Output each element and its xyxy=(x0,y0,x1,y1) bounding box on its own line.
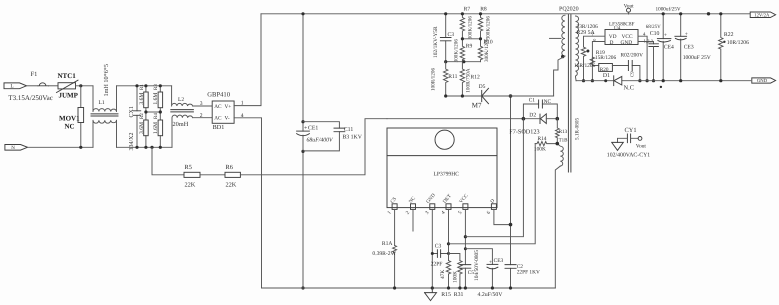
capacitor C2 xyxy=(505,264,540,275)
wire U4 VD to R29 xyxy=(584,36,606,47)
svg-text:BD1: BD1 xyxy=(213,124,225,131)
primary polarity dot xyxy=(561,55,564,58)
transformer T1 aux winding T1B xyxy=(557,144,563,166)
svg-text:100K: 100K xyxy=(534,146,546,152)
svg-text:CY1: CY1 xyxy=(625,127,637,134)
IC U1 pin 2 NC xyxy=(405,195,418,216)
bottom rail (primary ground) xyxy=(262,287,556,289)
svg-text:T3.15A/250Vac: T3.15A/250Vac xyxy=(8,94,53,102)
svg-text:F1: F1 xyxy=(31,71,38,78)
svg-text:JUMP: JUMP xyxy=(59,92,79,100)
junction dots divider mids and rails xyxy=(144,110,147,113)
common-mode choke L1 top winding xyxy=(93,86,117,112)
svg-text:1000uF 25V: 1000uF 25V xyxy=(683,55,711,61)
svg-text:3.6M: 3.6M xyxy=(139,93,145,105)
svg-text:GBP410: GBP410 xyxy=(207,92,230,99)
svg-text:LF3588C8F: LF3588C8F xyxy=(609,21,634,27)
junction dot N line xyxy=(79,146,82,149)
snubber mid tie line xyxy=(446,61,481,63)
svg-text:C11: C11 xyxy=(344,127,354,133)
svg-text:LP3799HC: LP3799HC xyxy=(434,172,460,178)
capacitor C1 (NC) xyxy=(523,97,557,118)
wire bridge pin1 to top rail xyxy=(234,14,261,106)
node Vout terminal circle (top rail) xyxy=(624,3,635,14)
svg-text:NTC1: NTC1 xyxy=(58,72,77,80)
snubber bottom line to transformer xyxy=(446,95,554,97)
svg-text:1mH 10*6*5: 1mH 10*6*5 xyxy=(103,64,110,96)
capacitor C3 (CS filter) xyxy=(431,243,449,267)
svg-text:2: 2 xyxy=(200,113,203,119)
svg-text:AC: AC xyxy=(214,104,222,110)
svg-text:R9: R9 xyxy=(466,44,473,50)
resistor R10 xyxy=(478,38,493,62)
drain vertical wire xyxy=(510,96,512,288)
snubber capacitor C3 (primary) xyxy=(433,14,454,62)
common-mode choke L1 bottom winding xyxy=(93,120,117,147)
svg-text:R4: R4 xyxy=(153,113,159,119)
svg-text:1: 1 xyxy=(386,210,393,216)
top rail xyxy=(261,13,751,15)
diode D1 (NC) xyxy=(603,73,634,91)
svg-text:+: + xyxy=(685,31,688,37)
svg-text:3: 3 xyxy=(424,210,431,216)
resistor R29 xyxy=(577,24,599,81)
svg-text:R11: R11 xyxy=(448,74,457,80)
svg-text:R29 5A: R29 5A xyxy=(577,30,596,36)
stray dot marker xyxy=(660,86,662,88)
capacitor C11 xyxy=(303,122,363,151)
capacitor CX1 xyxy=(129,86,141,151)
common-mode choke L2 top winding xyxy=(172,86,213,106)
fuse F1 xyxy=(38,83,49,86)
wire L1 to filter columns (top) xyxy=(117,85,172,87)
wire NTC1 to node, through to L1 xyxy=(76,85,94,87)
svg-text:300K/1206: 300K/1206 xyxy=(486,16,492,40)
svg-text:N: N xyxy=(11,145,15,151)
wire primary bottom to drain bus xyxy=(554,56,565,96)
resistor R2 xyxy=(139,108,148,148)
wire R5 to R6 xyxy=(200,174,225,176)
svg-text:100R/750A: 100R/750A xyxy=(465,68,471,92)
svg-text:Vout: Vout xyxy=(636,143,647,149)
svg-text:D1: D1 xyxy=(603,73,610,79)
svg-text:R12: R12 xyxy=(471,74,481,80)
svg-text:V-: V- xyxy=(225,115,230,121)
primary mid tick xyxy=(550,37,562,39)
svg-text:MOV1: MOV1 xyxy=(59,114,80,122)
resistor R4 xyxy=(153,108,162,148)
svg-text:C9: C9 xyxy=(630,71,636,77)
svg-text:6: 6 xyxy=(486,210,493,216)
wire U4 D pins down xyxy=(592,42,605,81)
svg-text:D: D xyxy=(610,40,614,46)
wire pin3 GND to ground xyxy=(431,209,433,288)
bridge rectifier BD1 GBP410 xyxy=(207,92,234,131)
wire pin2 NC stub xyxy=(412,209,414,231)
resistor R15 xyxy=(440,261,451,299)
wire L terminal to fuse xyxy=(27,85,39,87)
L2 core xyxy=(171,110,194,112)
IC U1 pin 4 DET xyxy=(440,193,453,216)
top rail junction dots (snubber) xyxy=(444,12,447,15)
svg-text:+: + xyxy=(664,32,667,38)
svg-text:T1B: T1B xyxy=(559,137,569,143)
resistor R14 xyxy=(534,136,557,152)
resistor R9 xyxy=(454,39,473,63)
IC U1 pin 1 CS xyxy=(386,196,398,216)
electrolytic capacitor CE4 xyxy=(656,6,681,80)
svg-text:100R/1206: 100R/1206 xyxy=(431,68,437,91)
svg-text:100K: 100K xyxy=(452,271,458,283)
svg-text:102/1KV-Y5R: 102/1KV-Y5R xyxy=(433,26,439,58)
resistor R6 xyxy=(225,164,240,189)
wire N terminal to L1 xyxy=(28,146,94,148)
resistor R13 xyxy=(556,119,560,144)
wire pin6 D to drain bus xyxy=(494,209,511,224)
wire VCC riser xyxy=(465,119,523,237)
wire pin4 DET down xyxy=(448,209,450,260)
rail test point dot xyxy=(707,12,710,15)
svg-text:NC: NC xyxy=(65,122,75,130)
svg-text:1.6M: 1.6M xyxy=(153,122,159,134)
svg-text:22K: 22K xyxy=(185,182,196,189)
svg-text:D5: D5 xyxy=(479,84,486,90)
svg-text:47K: 47K xyxy=(440,270,446,279)
svg-text:22K: 22K xyxy=(226,182,237,189)
svg-text:102/400VAC-CY1: 102/400VAC-CY1 xyxy=(607,152,650,158)
terminal GND xyxy=(752,78,776,84)
svg-text:1000uf/25V: 1000uf/25V xyxy=(656,6,681,12)
svg-text:U4: U4 xyxy=(614,25,621,31)
svg-text:R14: R14 xyxy=(538,136,547,142)
svg-text:300K/1206: 300K/1206 xyxy=(468,16,474,40)
svg-text:CE4: CE4 xyxy=(664,45,674,51)
svg-text:68/25V: 68/25V xyxy=(646,24,661,30)
earth ground symbol xyxy=(425,288,437,301)
output ground line xyxy=(576,80,751,82)
varistor MOV1 xyxy=(59,86,84,147)
wire bridge pin4 to bottom rail xyxy=(234,118,261,288)
svg-text:12V/2A: 12V/2A xyxy=(754,12,770,18)
svg-text:C10: C10 xyxy=(650,31,660,37)
wire R1R2-R3R4 mid tie xyxy=(146,111,160,113)
Y-capacitor CY1 xyxy=(607,127,650,158)
capacitor C9 xyxy=(621,52,644,77)
svg-text:R31: R31 xyxy=(454,292,464,298)
svg-text:+: + xyxy=(489,260,492,266)
common-mode choke L2 bottom winding xyxy=(172,115,212,147)
svg-text:R3: R3 xyxy=(153,84,159,90)
svg-text:CE3: CE3 xyxy=(494,258,504,264)
terminal N xyxy=(5,145,28,152)
svg-text:V+: V+ xyxy=(225,104,232,110)
wire U4 GND pins to C10 xyxy=(638,42,654,44)
svg-text:15R/1206: 15R/1206 xyxy=(595,55,617,61)
svg-text:PQ2020: PQ2020 xyxy=(559,6,579,12)
svg-text:4.2uF/50V: 4.2uF/50V xyxy=(478,292,504,298)
wire L1 to filter columns (bottom) xyxy=(117,146,173,148)
junction dot L line xyxy=(79,84,82,87)
svg-text:R13: R13 xyxy=(559,129,568,135)
svg-text:B3 1KV: B3 1KV xyxy=(342,135,362,141)
svg-text:R6: R6 xyxy=(226,164,233,171)
electrolytic capacitor CE3 xyxy=(465,249,503,298)
svg-text:33R/1206: 33R/1206 xyxy=(577,24,599,30)
secondary controller U4 LF3588C8F xyxy=(605,21,638,46)
resistor R19 xyxy=(590,50,616,64)
terminal L xyxy=(4,83,27,90)
wire pin5 VCC down xyxy=(464,209,466,264)
svg-text:GND: GND xyxy=(621,40,633,46)
resistor R20 xyxy=(574,63,640,81)
junction dots CX1 xyxy=(135,84,138,87)
IC U1 pin 3 GND xyxy=(424,192,437,216)
svg-text:R7: R7 xyxy=(464,6,471,12)
svg-text:300K/1206: 300K/1206 xyxy=(454,39,460,63)
transformer T1 primary winding xyxy=(562,15,565,56)
svg-text:C3: C3 xyxy=(435,243,442,249)
svg-text:22PF 1KV: 22PF 1KV xyxy=(517,269,540,275)
resistor R3 xyxy=(153,84,162,108)
svg-text:10R/1206: 10R/1206 xyxy=(727,40,749,46)
svg-text:3: 3 xyxy=(200,101,203,107)
resistor R31 xyxy=(449,254,464,299)
capacitor C5 xyxy=(460,250,480,288)
svg-text:CX1: CX1 xyxy=(129,106,135,117)
diode D2 F7-SOD123 xyxy=(509,113,557,136)
svg-text:R22: R22 xyxy=(724,32,734,38)
electrolytic capacitor CE1 xyxy=(297,14,334,288)
svg-text:F7-SOD123: F7-SOD123 xyxy=(509,128,539,135)
svg-text:3.6M: 3.6M xyxy=(139,122,145,134)
svg-text:2: 2 xyxy=(405,210,412,216)
svg-text:104/50V-0805: 104/50V-0805 xyxy=(474,250,480,281)
resistor R8 xyxy=(478,6,491,39)
resistor R22 xyxy=(719,14,749,81)
svg-text:NC: NC xyxy=(544,99,552,105)
terminal 12V/2A xyxy=(750,12,775,18)
IC U1 LP3799HC package xyxy=(387,128,497,208)
svg-text:R5: R5 xyxy=(185,164,192,171)
transformer T1 secondary winding xyxy=(576,16,579,81)
svg-text:334/X2: 334/X2 xyxy=(129,133,135,151)
svg-text:20mH: 20mH xyxy=(173,121,189,128)
resistor R7 xyxy=(460,6,473,39)
svg-text:GND: GND xyxy=(757,78,768,84)
svg-text:+: + xyxy=(304,126,307,132)
L1 core xyxy=(91,114,118,116)
svg-text:CE3: CE3 xyxy=(684,45,694,51)
junction dots CE1 xyxy=(301,12,304,15)
svg-text:22PF: 22PF xyxy=(431,261,443,267)
svg-text:C1: C1 xyxy=(529,97,536,103)
svg-text:D2: D2 xyxy=(529,113,536,119)
svg-text:R20: R20 xyxy=(600,67,609,73)
wire aux bottom to primary ground rail xyxy=(555,166,560,288)
svg-text:Vout: Vout xyxy=(624,3,635,9)
svg-text:1.6M: 1.6M xyxy=(153,93,159,105)
svg-text:R02/200V: R02/200V xyxy=(621,52,644,58)
wire startup tap down from N line xyxy=(152,147,184,175)
resistor R1 xyxy=(139,84,148,108)
diode D5 M7 xyxy=(472,84,489,110)
wire DET riser xyxy=(449,144,536,244)
snubber upper tie line xyxy=(462,38,480,40)
svg-text:R15: R15 xyxy=(441,292,451,298)
capacitor C10 xyxy=(646,24,661,81)
svg-text:300K/1206: 300K/1206 xyxy=(484,38,490,62)
svg-text:R8: R8 xyxy=(480,6,487,12)
wire fuse to NTC1 xyxy=(49,85,59,87)
svg-text:0.39R-2W: 0.39R-2W xyxy=(372,251,396,257)
svg-text:L1: L1 xyxy=(99,100,105,106)
wire pin1 CS to R1A xyxy=(394,209,396,245)
svg-text:5.1R-0805: 5.1R-0805 xyxy=(575,118,581,140)
svg-text:15R/1206: 15R/1206 xyxy=(574,63,596,69)
svg-text:L: L xyxy=(10,84,13,90)
electrolytic capacitor CE5 xyxy=(675,14,711,81)
svg-text:L2: L2 xyxy=(178,97,184,103)
thermistor NTC1 (JUMP) xyxy=(57,72,79,100)
svg-text:4: 4 xyxy=(440,210,447,216)
IC U1 pin 5 VCC xyxy=(457,192,470,215)
svg-text:5: 5 xyxy=(457,210,464,216)
svg-text:CE1: CE1 xyxy=(308,126,318,132)
resistor R11 xyxy=(431,62,458,96)
svg-text:C3: C3 xyxy=(448,32,455,38)
svg-text:R1: R1 xyxy=(139,84,145,90)
wire startup feed over IC to VCC node xyxy=(387,118,523,120)
svg-text:R1A: R1A xyxy=(382,241,393,247)
resistor R12 xyxy=(460,62,480,96)
wire U4 VCC pin down to output gnd xyxy=(638,36,647,80)
svg-text:AC: AC xyxy=(214,115,222,121)
IC U1 pin 6 D xyxy=(486,198,497,216)
resistor R1A xyxy=(372,241,396,288)
resistor R5 xyxy=(184,164,200,189)
svg-text:R2: R2 xyxy=(139,113,145,119)
svg-text:68uF/400V: 68uF/400V xyxy=(307,138,335,144)
svg-text:M7: M7 xyxy=(472,102,482,110)
svg-text:N.C: N.C xyxy=(624,84,634,91)
wire R6 to riser x365 xyxy=(240,119,387,175)
transformer T1 core xyxy=(568,15,571,172)
